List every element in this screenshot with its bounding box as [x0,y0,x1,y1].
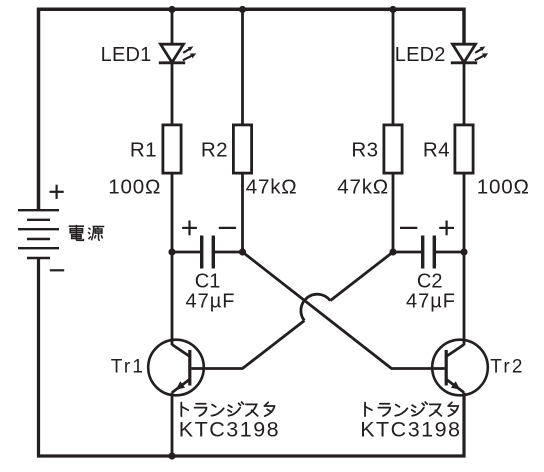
svg-text:47kΩ: 47kΩ [246,176,298,199]
svg-text:100Ω: 100Ω [477,176,530,199]
svg-text:R1: R1 [130,138,157,161]
svg-text:47µF: 47µF [406,290,456,312]
svg-text:R4: R4 [423,138,450,161]
svg-text:Tr2: Tr2 [490,357,524,378]
svg-text:KTC3198: KTC3198 [360,417,461,441]
svg-text:R3: R3 [351,138,378,161]
svg-text:R2: R2 [201,138,228,161]
svg-text:KTC3198: KTC3198 [179,417,280,441]
svg-text:Tr1: Tr1 [111,357,145,378]
svg-text:LED2: LED2 [395,44,446,66]
svg-text:100Ω: 100Ω [108,176,161,199]
svg-text:LED1: LED1 [101,44,152,66]
svg-text:47kΩ: 47kΩ [337,176,389,199]
svg-text:47µF: 47µF [186,290,236,312]
